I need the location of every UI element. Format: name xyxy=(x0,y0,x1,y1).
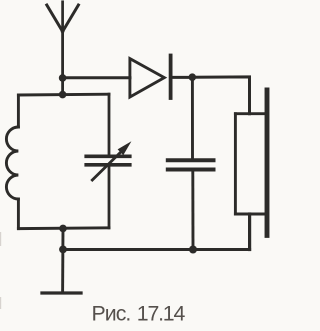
telephone BF1: bottom edge xyxy=(235,213,267,216)
LC tank: right edge upper wire xyxy=(108,94,111,156)
inductor L1 (3 bumps) xyxy=(6,127,18,199)
wire node B down to capacitor C2 xyxy=(191,77,194,158)
LC tank: left edge upper wire xyxy=(17,95,20,127)
antenna W1 xyxy=(47,2,79,95)
telephone BF1: top edge xyxy=(235,112,267,115)
variable capacitor C1 plates xyxy=(86,156,130,165)
fixed capacitor C2 plates xyxy=(168,160,214,169)
variable capacitor C1 arrow xyxy=(92,143,130,180)
telephone BF1: left edge xyxy=(234,114,237,214)
wire diode to node B xyxy=(171,76,193,79)
LC tank: bottom edge wire xyxy=(18,226,109,230)
junction dots xyxy=(59,73,197,253)
scan artifacts left edge xyxy=(0,232,2,309)
node: antenna on tank top edge xyxy=(59,91,67,99)
node: antenna / top wire junction xyxy=(59,74,67,82)
LC tank: top edge wire xyxy=(18,93,109,97)
node: after diode xyxy=(189,73,197,81)
node: capacitor on bottom bus xyxy=(189,246,197,254)
telephone BF1: right bar xyxy=(265,90,270,235)
ground bar xyxy=(42,291,81,294)
diode VD1 xyxy=(130,56,171,99)
node: bottom bus left junction xyxy=(59,246,67,254)
LC tank: right edge lower wire xyxy=(108,165,111,228)
wire telephone to bottom bus xyxy=(248,214,251,250)
LC tank: left edge lower wire xyxy=(17,199,20,229)
wire tank bottom to ground xyxy=(61,228,64,292)
svg-text:17.14: 17.14 xyxy=(137,302,186,326)
bottom bus wire xyxy=(63,248,250,251)
wire antenna node to diode xyxy=(63,76,131,79)
wire node B to top-right corner and down xyxy=(192,77,249,114)
svg-text:Рис.: Рис. xyxy=(92,302,131,326)
wire capacitor C2 to bottom bus xyxy=(191,170,194,250)
node: tank bottom edge xyxy=(59,225,67,233)
